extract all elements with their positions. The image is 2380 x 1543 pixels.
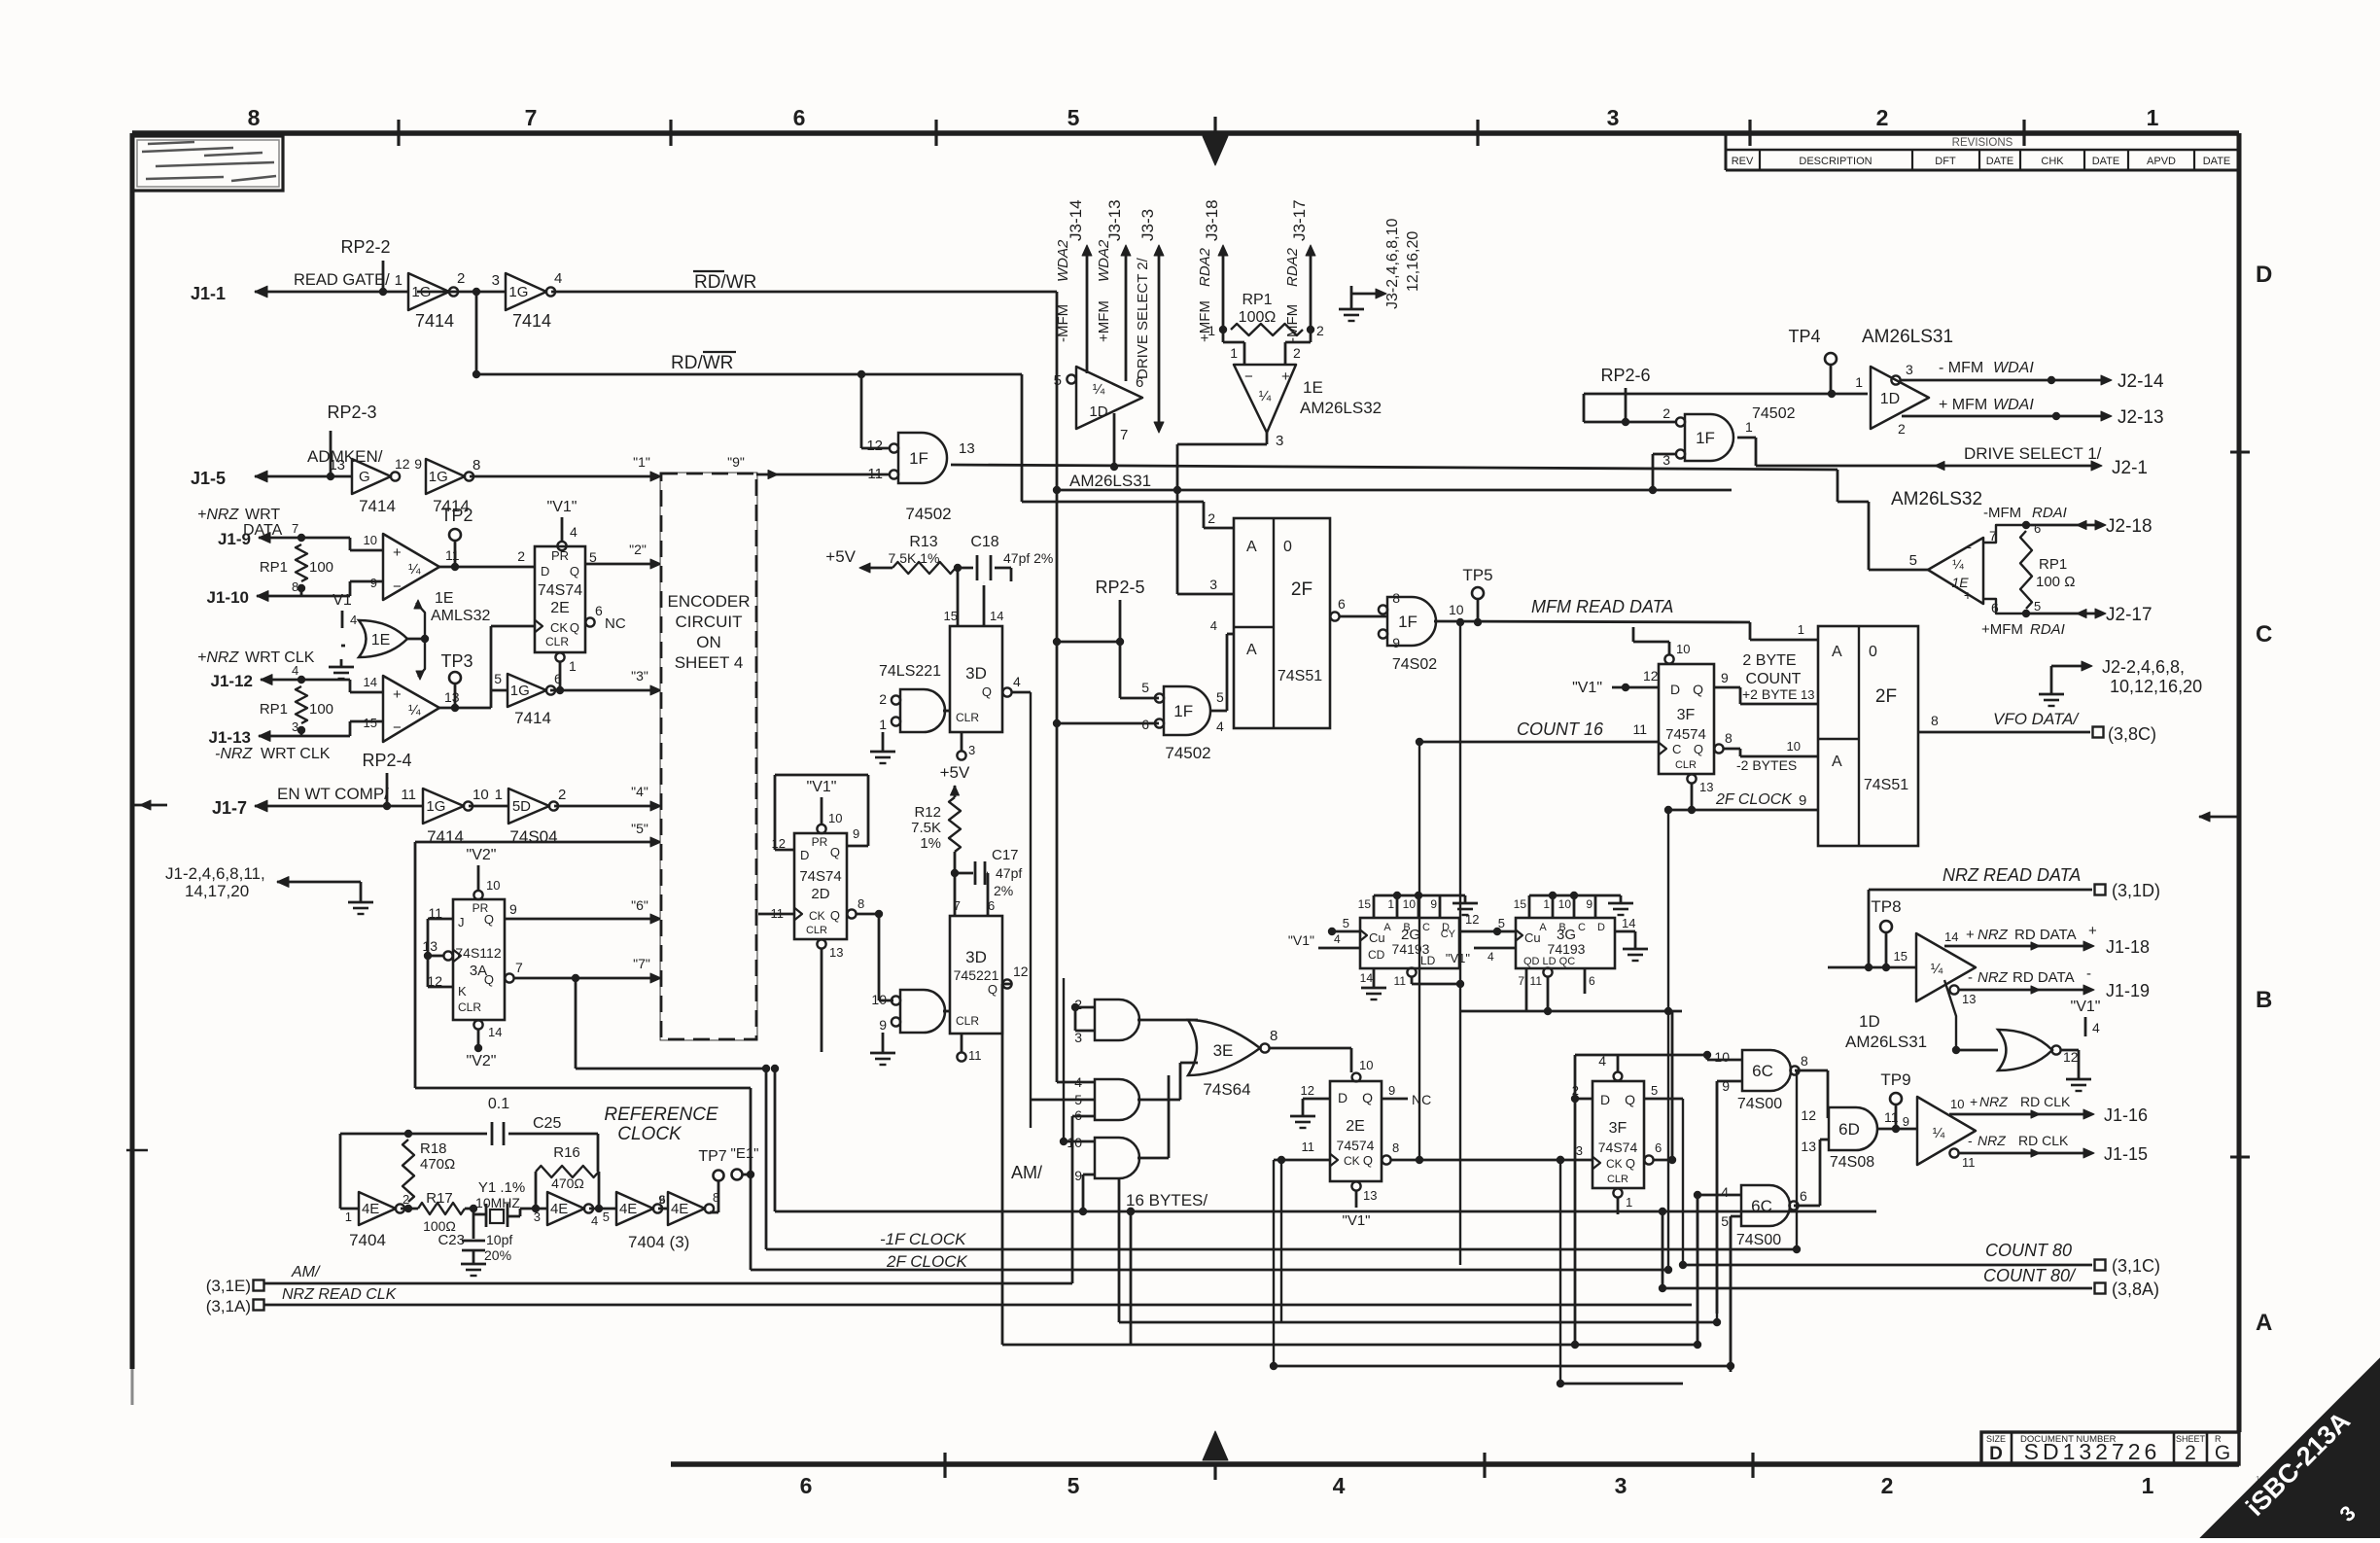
svg-text:1: 1 <box>2147 105 2159 130</box>
svg-text:+5V: +5V <box>825 547 856 566</box>
wire into 1F inputs <box>860 374 863 448</box>
svg-text:¼: ¼ <box>1931 961 1943 977</box>
svg-text:WDAI: WDAI <box>1993 360 2034 376</box>
svg-text:1F: 1F <box>1173 702 1193 720</box>
svg-text:C: C <box>2256 621 2272 648</box>
svg-text:7: 7 <box>292 521 298 536</box>
inverter 1G 7414 b <box>506 273 546 310</box>
and-or gate 2F 74S51 b <box>1818 626 1918 846</box>
zone boundary arrow left <box>134 804 167 807</box>
wire ADMKEN <box>255 475 352 478</box>
svg-text:NRZ: NRZ <box>1977 1133 2006 1148</box>
wire and-a out <box>1137 1019 1198 1022</box>
svg-text:(3,1A): (3,1A) <box>206 1297 251 1315</box>
svg-text:RDA2: RDA2 <box>1284 247 1301 287</box>
svg-text:2: 2 <box>2185 1442 2196 1464</box>
svg-text:RP1: RP1 <box>2039 556 2067 573</box>
svg-text:9: 9 <box>1721 670 1729 685</box>
svg-text:RP1: RP1 <box>260 559 288 576</box>
svg-text:NRZ READ CLK: NRZ READ CLK <box>282 1286 398 1303</box>
svg-text:"1": "1" <box>633 454 650 470</box>
svg-text:1E: 1E <box>371 632 391 649</box>
svg-text:470Ω: 470Ω <box>420 1156 455 1173</box>
inverter 4E 7404 a <box>340 1208 359 1210</box>
svg-text:-2 BYTES: -2 BYTES <box>1736 757 1797 773</box>
svg-text:7414: 7414 <box>359 497 396 515</box>
svg-text:1%: 1% <box>920 835 941 852</box>
svg-text:RDAI: RDAI <box>2032 505 2067 521</box>
wire AM stub <box>264 1282 1072 1285</box>
svg-text:J3-13: J3-13 <box>1105 199 1124 241</box>
svg-text:1: 1 <box>395 272 402 289</box>
wire nand-a to 3D <box>943 710 950 713</box>
svg-text:2: 2 <box>402 1192 409 1207</box>
svg-text:5D: 5D <box>512 798 531 815</box>
svg-text:10: 10 <box>1558 897 1572 911</box>
svg-text:1: 1 <box>1543 897 1550 911</box>
resistor RP1 100ohm c <box>1219 326 1227 333</box>
svg-text:D: D <box>541 564 549 579</box>
svg-text:R16: R16 <box>553 1144 580 1161</box>
svg-text:7414: 7414 <box>514 709 551 727</box>
svg-text:6: 6 <box>1655 1140 1662 1155</box>
svg-text:A: A <box>1246 642 1257 658</box>
svg-text:11: 11 <box>445 547 460 563</box>
wire mfm read data <box>1434 621 1750 622</box>
svg-text:9: 9 <box>1388 1083 1395 1098</box>
svg-text:"V1": "V1" <box>807 779 837 795</box>
svg-text:4E: 4E <box>619 1201 637 1217</box>
nor-gate 1F 74S02 d <box>1685 414 1733 461</box>
svg-text:A: A <box>1246 539 1257 555</box>
svg-text:TP7: TP7 <box>698 1148 726 1165</box>
svg-text:J1-13: J1-13 <box>209 728 251 747</box>
nor-gate 1F 74S02 b lower <box>1164 686 1210 735</box>
svg-text:RP2-6: RP2-6 <box>1600 366 1650 385</box>
pin 3F-a Qbar 8 -2bytes <box>1714 744 1723 753</box>
svg-text:47pf 2%: 47pf 2% <box>1003 550 1053 566</box>
svg-text:7.5K: 7.5K <box>911 820 941 836</box>
svg-text:9: 9 <box>414 456 422 472</box>
svg-text:10,12,16,20: 10,12,16,20 <box>2110 677 2202 696</box>
svg-text:Cu: Cu <box>1524 930 1541 945</box>
svg-text:"4": "4" <box>631 784 648 799</box>
svg-text:+ MFM: + MFM <box>1939 397 1987 413</box>
svg-text:RP2-5: RP2-5 <box>1095 578 1144 597</box>
wire NRZ READ CLK stub <box>264 1304 1692 1307</box>
svg-text:3D: 3D <box>965 948 987 966</box>
wire 3A inputs <box>427 919 430 987</box>
svg-text:9: 9 <box>509 901 517 917</box>
svg-text:3: 3 <box>1209 577 1217 592</box>
svg-text:Q: Q <box>1693 682 1703 697</box>
svg-text:2: 2 <box>457 270 465 287</box>
svg-text:NRZ: NRZ <box>1977 927 2009 943</box>
svg-text:J1-16: J1-16 <box>2104 1105 2148 1125</box>
svg-text:TP3: TP3 <box>440 651 472 671</box>
nor-gate 1F 74S02 a <box>898 433 947 483</box>
pin 2E CLR <box>555 652 564 661</box>
wire vertical web <box>1063 978 1065 1141</box>
svg-text:"V1": "V1" <box>1572 680 1602 696</box>
svg-text:D: D <box>1338 1090 1347 1105</box>
flip-flop 2E 74S74 <box>535 546 585 652</box>
nand-gate 74LS221 input a <box>900 689 945 732</box>
wire 3E out to 2E preset <box>1270 1047 1351 1050</box>
ground at or-gate 1E <box>341 645 345 648</box>
svg-text:CLR: CLR <box>1675 759 1697 771</box>
svg-text:+2 BYTE: +2 BYTE <box>1742 686 1797 702</box>
svg-text:AM26LS31: AM26LS31 <box>1862 327 1953 347</box>
svg-text:"V2": "V2" <box>467 847 497 863</box>
svg-text:2: 2 <box>517 548 525 564</box>
svg-text:1D: 1D <box>1859 1012 1880 1031</box>
svg-text:J1-1: J1-1 <box>191 284 226 303</box>
svg-text:¼: ¼ <box>1259 388 1272 404</box>
wire mfm vertical feed <box>1459 622 1461 1265</box>
wire to encoder 5 <box>415 841 657 844</box>
svg-text:WDA2: WDA2 <box>1055 239 1071 282</box>
svg-text:7: 7 <box>515 960 523 975</box>
ground at C23 <box>472 1250 475 1256</box>
svg-text:D: D <box>1989 1444 2003 1464</box>
svg-text:14: 14 <box>488 1025 502 1039</box>
wire to encoder input 1 <box>470 475 657 478</box>
svg-text:J2-13: J2-13 <box>2117 407 2164 428</box>
svg-text:NC: NC <box>1412 1092 1431 1107</box>
svg-text:1: 1 <box>2142 1473 2154 1498</box>
drawing stamp box <box>132 136 283 191</box>
svg-text:"7": "7" <box>633 956 650 971</box>
svg-text:470Ω: 470Ω <box>551 1175 584 1191</box>
nand-gate 6C 74S00 a <box>1742 1050 1791 1091</box>
svg-text:11: 11 <box>1530 974 1543 988</box>
resistor R18 470ohm <box>404 1130 412 1138</box>
svg-text:15: 15 <box>1514 897 1527 911</box>
svg-text:2: 2 <box>1293 345 1301 361</box>
svg-text:10pf: 10pf <box>486 1232 512 1247</box>
wire -1F vertical <box>765 1069 768 1249</box>
svg-text:4: 4 <box>554 270 562 287</box>
flip-flop 2D 74S74 <box>794 833 847 939</box>
svg-text:RP1: RP1 <box>1242 292 1272 308</box>
svg-text:¼: ¼ <box>408 702 421 719</box>
svg-text:-: - <box>1968 1133 1973 1148</box>
svg-text:D: D <box>2256 262 2272 288</box>
wire 1F-b input 6 <box>1057 722 1159 725</box>
wire mid line C <box>1057 489 1732 492</box>
svg-text:20%: 20% <box>484 1247 511 1263</box>
wire J2-17 <box>2026 613 2100 615</box>
svg-text:J1-18: J1-18 <box>2106 937 2150 957</box>
zone boundary arrow right <box>2199 816 2237 819</box>
svg-text:3: 3 <box>292 719 298 734</box>
wire +MFM RDA2 to J3-18 <box>1222 251 1225 330</box>
wire -MFM RDA2 to J3-17 <box>1310 251 1312 330</box>
svg-text:5: 5 <box>1141 680 1149 695</box>
driver 1D quarter c <box>1916 933 1976 1001</box>
svg-text:14: 14 <box>1622 916 1635 930</box>
resistor R13 7.5K <box>870 567 892 570</box>
svg-text:EN WT COMP/: EN WT COMP/ <box>277 785 389 803</box>
resistor RP1 100ohm d <box>2020 531 2032 609</box>
pin 3A Qbar to encoder 7 <box>505 973 513 982</box>
svg-text:13: 13 <box>829 945 843 960</box>
counter 2G 74193 <box>1360 918 1459 968</box>
net +5V b <box>951 786 960 795</box>
svg-text:15: 15 <box>944 609 958 623</box>
pin 2F out 6 <box>1330 612 1339 620</box>
resistor R17 100ohm <box>401 1208 418 1210</box>
inverter 1G 7414 f <box>423 789 464 824</box>
resistor RP1 100ohm b <box>297 676 305 684</box>
ground at J1 common <box>360 882 363 894</box>
wire or out <box>407 638 425 641</box>
svg-text:3: 3 <box>1906 362 1913 377</box>
svg-text:2: 2 <box>558 787 566 803</box>
pin 3D lower Qbar 12 <box>1002 979 1011 988</box>
svg-text:AM/: AM/ <box>291 1264 321 1280</box>
flip-flop 3F 74S74 a <box>1659 664 1714 774</box>
svg-text:2%: 2% <box>994 883 1013 898</box>
svg-text:14,17,20: 14,17,20 <box>185 882 249 900</box>
resistor RP1 100ohm a <box>297 534 305 542</box>
wire READ GATE <box>255 291 408 294</box>
svg-text:1G: 1G <box>508 284 528 300</box>
svg-text:7404 (3): 7404 (3) <box>628 1233 689 1251</box>
svg-text:4: 4 <box>2092 1020 2100 1035</box>
svg-text:0: 0 <box>1283 539 1292 555</box>
svg-text:C18: C18 <box>970 534 998 550</box>
svg-text:-1F CLOCK: -1F CLOCK <box>880 1230 966 1248</box>
svg-text:74S51: 74S51 <box>1864 777 1908 793</box>
svg-text:NRZ: NRZ <box>1979 1094 2008 1109</box>
svg-text:5: 5 <box>2034 599 2041 614</box>
svg-text:4: 4 <box>1013 674 1021 689</box>
svg-text:10MHZ: 10MHZ <box>475 1195 520 1210</box>
svg-text:Q: Q <box>1694 742 1703 756</box>
svg-text:V1: V1 <box>332 592 352 609</box>
svg-text:2E: 2E <box>1346 1118 1365 1135</box>
svg-text:5: 5 <box>603 1210 610 1224</box>
flip-flop 2E 74S74 b <box>1352 1073 1361 1082</box>
pin 3F-b CLR 1 <box>1613 1188 1622 1197</box>
wire nrz read data <box>1869 889 2092 892</box>
svg-text:Q: Q <box>570 564 579 579</box>
svg-text:AMLS32: AMLS32 <box>431 608 490 624</box>
pin or out 12 <box>2051 1045 2060 1054</box>
svg-text:CIRCUIT: CIRCUIT <box>676 613 743 631</box>
capacitor C23 10pf <box>472 1209 475 1239</box>
and-gate c pins 10,9 <box>1095 1138 1139 1178</box>
svg-text:(3,1C): (3,1C) <box>2112 1256 2160 1276</box>
svg-text:4: 4 <box>570 524 577 540</box>
svg-text:Q: Q <box>484 912 494 927</box>
svg-text:6: 6 <box>793 105 806 130</box>
svg-text:RDAI: RDAI <box>2030 621 2065 638</box>
wire TP4 net <box>1584 393 1868 396</box>
svg-text:1E: 1E <box>1951 575 1969 590</box>
svg-text:1: 1 <box>495 787 503 803</box>
one-shot 3D 74LS221 <box>950 626 1002 732</box>
svg-text:CK: CK <box>809 909 825 923</box>
svg-text:1G: 1G <box>429 469 448 485</box>
svg-text:3: 3 <box>968 743 975 757</box>
svg-text:8: 8 <box>1801 1053 1808 1069</box>
wire driver to or gate <box>1944 980 1956 1050</box>
svg-text:DESCRIPTION: DESCRIPTION <box>1799 156 1872 167</box>
wire E1 vertical <box>750 1088 752 1270</box>
svg-text:3F: 3F <box>1609 1120 1627 1137</box>
svg-text:"3": "3" <box>631 668 648 684</box>
wire rail to 3D pins <box>957 568 960 626</box>
svg-text:2: 2 <box>1898 421 1906 437</box>
svg-text:Q: Q <box>570 620 579 635</box>
comparator 1E AM26LS32 quarter a <box>383 534 439 600</box>
svg-text:3F: 3F <box>1677 707 1696 723</box>
svg-text:SHEET 4: SHEET 4 <box>675 653 744 672</box>
wire bus 1357 <box>1119 1321 1717 1324</box>
svg-text:6: 6 <box>1338 596 1346 612</box>
pin 3D Q-bar out 4 <box>1002 687 1011 696</box>
svg-text:CLR: CLR <box>806 925 827 936</box>
svg-text:74502: 74502 <box>905 505 951 523</box>
svg-text:R18: R18 <box>420 1140 447 1157</box>
svg-text:74LS221: 74LS221 <box>879 663 941 680</box>
svg-text:+: + <box>1970 1094 1977 1109</box>
driver 1D AM26LS31 quarter <box>1076 367 1142 429</box>
svg-text:3: 3 <box>1607 105 1620 130</box>
svg-text:10: 10 <box>1403 897 1417 911</box>
svg-text:8: 8 <box>248 105 261 130</box>
wire mfm to 2F#2 pin1 <box>1749 622 1752 640</box>
svg-text:C25: C25 <box>533 1115 561 1132</box>
or-gate 3E 74S64 <box>1188 1020 1260 1075</box>
inverter 4E 7404 b <box>547 1192 584 1225</box>
svg-text:RD CLK: RD CLK <box>2018 1133 2069 1148</box>
svg-text:10: 10 <box>1449 602 1464 617</box>
svg-text:13: 13 <box>1699 780 1713 794</box>
svg-text:CY: CY <box>1441 929 1456 940</box>
resistor R12 7.5K 1% <box>949 797 961 852</box>
wire osc output <box>710 1211 718 1214</box>
svg-text:AM26LS32: AM26LS32 <box>1891 489 1982 509</box>
svg-text:+5V: +5V <box>940 763 970 782</box>
svg-text:0.1: 0.1 <box>488 1096 509 1112</box>
svg-text:ENCODER: ENCODER <box>667 592 750 611</box>
flip-flop 3A 74S112 <box>453 899 505 1020</box>
capacitor C17 47pf <box>955 872 973 875</box>
svg-text:6: 6 <box>1589 974 1595 988</box>
svg-text:¼: ¼ <box>408 561 421 578</box>
connector (3,1A) <box>254 1300 264 1311</box>
comparator 1E AM26LS32 quarter b <box>383 676 439 742</box>
border frame top <box>132 130 2239 136</box>
svg-text:D: D <box>1670 682 1680 697</box>
svg-text:2 BYTE: 2 BYTE <box>1742 652 1796 669</box>
svg-text:7414: 7414 <box>512 311 551 331</box>
wire J1-12 to amp <box>261 679 301 682</box>
svg-text:14: 14 <box>1944 929 1958 944</box>
wire comparator a out <box>439 566 535 569</box>
svg-text:3E: 3E <box>1213 1041 1234 1060</box>
svg-text:11: 11 <box>1962 1155 1976 1170</box>
svg-text:NRZ READ DATA: NRZ READ DATA <box>1942 865 2081 885</box>
svg-text:11: 11 <box>968 1048 982 1063</box>
svg-text:11: 11 <box>401 787 416 803</box>
pin 3D lower clr 11 <box>961 1034 963 1052</box>
node J2-2 grounds <box>2050 666 2053 686</box>
svg-text:Q: Q <box>484 972 494 987</box>
svg-text:-MFM: -MFM <box>1983 505 2021 521</box>
wire count 80 <box>1683 1264 2092 1267</box>
svg-text:1: 1 <box>1387 897 1394 911</box>
inverter 4E 7404 d <box>658 1208 668 1210</box>
svg-text:A: A <box>2256 1310 2272 1336</box>
svg-text:−: − <box>1244 368 1253 385</box>
wire comparator inputs a <box>301 537 350 540</box>
pin 13 -NRZ RD DATA J1-19 <box>1949 985 1958 994</box>
svg-text:8: 8 <box>1270 1028 1277 1044</box>
svg-text:C17: C17 <box>992 847 1019 863</box>
svg-text:74574: 74574 <box>1337 1138 1375 1153</box>
svg-text:COUNT 80: COUNT 80 <box>1985 1241 2072 1260</box>
svg-text:12: 12 <box>1465 912 1479 927</box>
svg-text:"V2": "V2" <box>467 1053 497 1070</box>
svg-text:+: + <box>1966 927 1975 943</box>
svg-text:5: 5 <box>1721 1213 1729 1229</box>
svg-text:SIZE: SIZE <box>1986 1434 2006 1444</box>
svg-text:J1-12: J1-12 <box>211 672 253 690</box>
svg-text:J2-17: J2-17 <box>2106 605 2152 625</box>
wire 2E clr to encoder 3 <box>550 689 657 692</box>
svg-text:2D: 2D <box>811 886 829 902</box>
wire 16-bytes vertical <box>774 1069 777 1211</box>
svg-text:10: 10 <box>828 811 842 825</box>
svg-text:CK: CK <box>1344 1154 1360 1168</box>
svg-text:READ GATE/: READ GATE/ <box>294 271 390 289</box>
svg-text:13: 13 <box>1801 1139 1816 1154</box>
svg-text:5: 5 <box>1498 916 1505 930</box>
svg-text:R17: R17 <box>426 1190 453 1207</box>
svg-text:4E: 4E <box>550 1201 568 1217</box>
svg-text:TP8: TP8 <box>1871 897 1901 916</box>
svg-text:11: 11 <box>1394 974 1407 988</box>
pin 5 input <box>1067 374 1075 383</box>
svg-text:-: - <box>2086 965 2091 982</box>
wire bus 1383 <box>1002 1344 1697 1347</box>
svg-text:6D: 6D <box>1838 1120 1860 1139</box>
svg-text:74S74: 74S74 <box>538 582 582 599</box>
svg-text:1G: 1G <box>510 683 530 699</box>
sheet centre arrow bottom <box>1203 1431 1228 1460</box>
svg-text:2: 2 <box>1876 105 1889 130</box>
ground under nand b <box>882 1033 885 1045</box>
svg-text:R13: R13 <box>909 534 937 550</box>
svg-text:47pf: 47pf <box>996 865 1022 881</box>
svg-text:C: C <box>1422 922 1430 933</box>
pin 11 -NRZ RD CLK J1-15 <box>1949 1148 1958 1157</box>
svg-text:+MFM: +MFM <box>1096 300 1112 342</box>
wire J3-14 line <box>1086 251 1089 373</box>
svg-text:74S74: 74S74 <box>799 868 841 885</box>
svg-text:2F: 2F <box>1875 686 1897 707</box>
svg-text:5: 5 <box>1067 1473 1080 1498</box>
svg-text:¼: ¼ <box>1952 556 1964 572</box>
svg-text:Y1 .1%: Y1 .1% <box>478 1179 525 1196</box>
svg-text:DRIVE SELECT 1/: DRIVE SELECT 1/ <box>1964 444 2102 463</box>
wire receiver inputs <box>1243 342 1246 365</box>
